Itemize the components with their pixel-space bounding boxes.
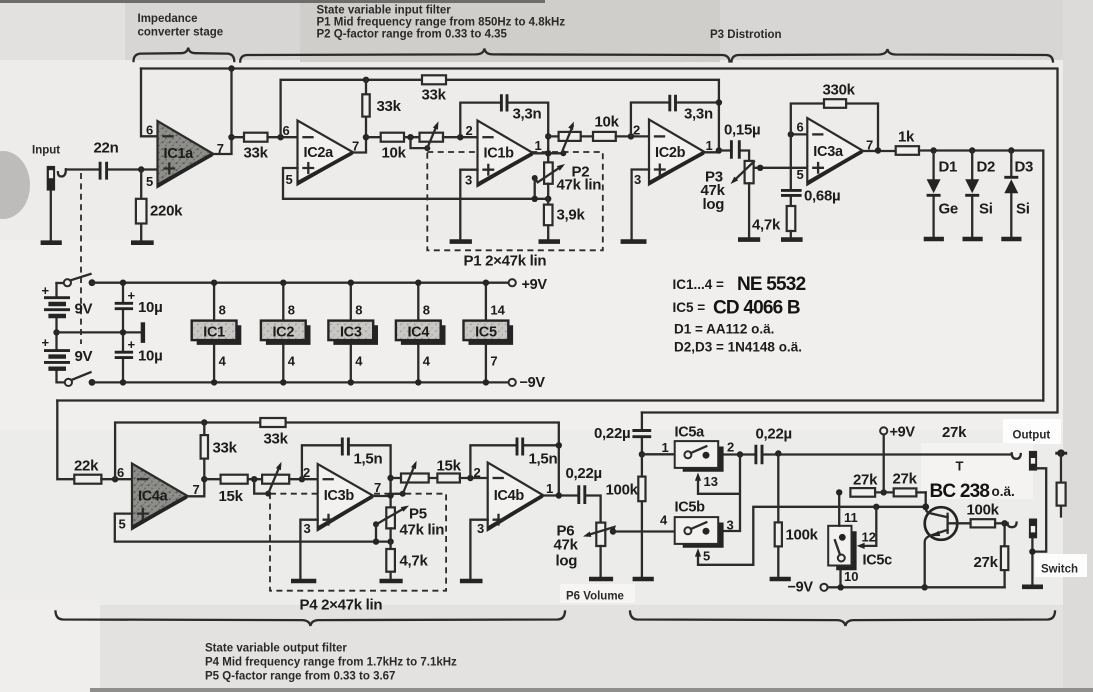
wire node to IC5a pin1	[642, 453, 675, 455]
op-amp U IC3a	[807, 118, 863, 185]
node IC1b output on riser	[545, 150, 551, 156]
wire IC5b pin5 control path to IC5c pin12 line	[698, 507, 926, 565]
wire IC4a feedback rail	[115, 423, 559, 496]
svg-text:IC5b: IC5b	[675, 500, 706, 516]
svg-text:P4 2×47k lin: P4 2×47k lin	[300, 597, 383, 614]
svg-text:0,68µ: 0,68µ	[804, 188, 840, 205]
node IC3b output	[387, 492, 393, 498]
svg-text:IC4a: IC4a	[138, 489, 169, 505]
wire input to 22n	[66, 168, 100, 170]
svg-text:220k: 220k	[150, 203, 183, 220]
resistor 33k feedback vertical IC4a	[203, 423, 205, 480]
svg-text:IC1...4 =: IC1...4 =	[673, 277, 725, 292]
svg-text:T: T	[956, 459, 964, 474]
svg-text:CD 4066 B: CD 4066 B	[713, 298, 800, 319]
scanner blob left edge	[0, 151, 30, 219]
resistor 33k input of IC2a	[232, 136, 298, 138]
svg-text:22k: 22k	[74, 458, 99, 475]
wiper tie P2 to rail	[532, 175, 538, 181]
svg-text:IC2b: IC2b	[655, 145, 686, 161]
svg-text:5: 5	[146, 174, 153, 189]
op-amp U IC4a shaded	[132, 464, 188, 530]
capacitor 0,22u bypass feed	[641, 413, 643, 455]
svg-text:4,7k: 4,7k	[400, 553, 429, 570]
svg-text:5: 5	[797, 167, 804, 182]
capacitor C 22n	[100, 162, 107, 180]
op-amp U IC2b	[649, 120, 705, 185]
wire IC2a pin5 to long ground-reference rail	[283, 168, 548, 199]
svg-text:NE 5532: NE 5532	[737, 274, 806, 295]
svg-text:5: 5	[119, 517, 126, 532]
wire IC3a output	[863, 150, 895, 152]
svg-text:15k: 15k	[219, 488, 244, 505]
svg-text:IC5: IC5	[475, 325, 497, 341]
ground 3,9k	[539, 239, 561, 244]
wire 0V mid rail	[57, 331, 143, 333]
switch jack	[1029, 519, 1037, 539]
svg-text:D2,D3 = 1N4148 o.ä.: D2,D3 = 1N4148 o.ä.	[674, 340, 802, 355]
svg-text:+9V: +9V	[890, 425, 916, 441]
resistor 33k horizontal on bottom fb rail	[260, 418, 285, 427]
terminal -9V bottom	[820, 584, 827, 591]
svg-text:IC1a: IC1a	[164, 146, 195, 162]
resistor 27k jack branch	[1057, 483, 1066, 506]
svg-text:1: 1	[662, 440, 669, 455]
wire +9V rail	[92, 282, 509, 284]
svg-text:47k: 47k	[554, 537, 579, 554]
svg-text:1: 1	[706, 138, 713, 153]
potentiometer P4a	[262, 475, 289, 484]
svg-text:0,22µ: 0,22µ	[566, 465, 602, 482]
op-amp U IC3b	[318, 464, 374, 530]
wire IC2a output riser	[354, 137, 367, 152]
wire 22n to IC1a pin5	[107, 168, 158, 170]
svg-text:Switch: Switch	[1041, 564, 1078, 576]
ground P3	[738, 237, 760, 242]
svg-text:IC4b: IC4b	[494, 488, 525, 504]
diode D1 Ge	[932, 151, 934, 237]
svg-text:15k: 15k	[437, 458, 462, 475]
node 3,3n loop at IC2b fb riser	[716, 99, 722, 105]
capacitor 10u lower	[122, 332, 124, 382]
wire output jack sleeve to switch node	[1032, 468, 1046, 551]
ground IC3b pin3	[291, 579, 316, 584]
switch battery bottom	[65, 379, 72, 386]
svg-text:100k: 100k	[786, 527, 819, 544]
svg-text:o.ä.: o.ä.	[992, 484, 1015, 499]
white label patch Output	[1003, 419, 1061, 444]
dashed box P4	[270, 494, 446, 591]
svg-text:+: +	[42, 335, 50, 350]
node control line at pin12 riser	[873, 504, 879, 510]
switch battery top	[57, 282, 64, 284]
node IC3b pin2	[299, 476, 305, 482]
svg-text:IC2: IC2	[272, 325, 294, 341]
resistor 27k collector right	[894, 488, 917, 496]
svg-text:6: 6	[797, 120, 804, 135]
svg-text:100k: 100k	[967, 502, 1000, 519]
op-amp U IC4b	[488, 463, 544, 531]
analog switch IC5a	[683, 447, 724, 472]
svg-text:4: 4	[219, 354, 227, 369]
node D3	[1008, 147, 1014, 153]
resistor 33k feedback horizontal on rail	[422, 75, 446, 84]
svg-text:3,3n: 3,3n	[513, 106, 542, 123]
IC block IC4	[417, 283, 419, 383]
svg-text:2: 2	[466, 123, 473, 138]
wire IC3b pin3 to ground	[300, 520, 317, 579]
node IC5c pin10 on -9V	[838, 584, 844, 590]
battery B2 9V	[57, 332, 65, 382]
brace P3 distortion	[732, 49, 1054, 62]
terminal +9V	[509, 279, 516, 286]
svg-text:IC3a: IC3a	[813, 144, 844, 160]
svg-text:330k: 330k	[823, 82, 856, 99]
svg-text:6: 6	[146, 123, 153, 138]
node IC1b pin2	[457, 134, 463, 140]
resistor 27k base pulldown	[1003, 523, 1005, 587]
white patch P6 Volume	[560, 584, 635, 603]
ground D3	[1001, 237, 1021, 242]
svg-text:3,9k: 3,9k	[557, 207, 586, 224]
svg-text:3: 3	[477, 521, 484, 536]
svg-text:1,5n: 1,5n	[354, 451, 383, 468]
ground 100k jack side	[770, 577, 791, 582]
svg-text:IC1: IC1	[203, 325, 225, 341]
svg-text:P5 Q-factor range from 0.33 to: P5 Q-factor range from 0.33 to 3.67	[205, 671, 395, 683]
ground input jack	[41, 240, 62, 245]
svg-text:5: 5	[703, 549, 710, 564]
wire latch IC5a out to pin13 and IC5b pin3	[698, 455, 740, 532]
ground IC4b pin3	[460, 579, 483, 584]
resistor 4,7k bottom	[389, 542, 391, 579]
resistor 3,9k	[547, 199, 549, 240]
resistor 33k feedback vertical IC2a	[365, 80, 367, 137]
wire IC3b output	[374, 495, 391, 497]
svg-text:+: +	[42, 283, 50, 298]
wire IC1a feedback left vertical to pin6	[141, 69, 158, 137]
brace bottom right section	[630, 612, 1055, 627]
resistor 15k after IC4a	[204, 478, 262, 480]
svg-text:47k lin: 47k lin	[557, 177, 602, 194]
node base network junction	[1001, 520, 1007, 526]
svg-text:D1 = AA112 o.ä.: D1 = AA112 o.ä.	[674, 322, 774, 337]
svg-text:5: 5	[286, 172, 293, 187]
output jack	[1029, 451, 1037, 471]
ground IC2b pin3	[621, 239, 647, 244]
potentiometer P5	[386, 507, 395, 528]
wire IC1a output riser	[214, 69, 232, 155]
potentiometer P2	[544, 162, 553, 183]
analog switch IC5b	[683, 523, 724, 548]
svg-text:8: 8	[219, 303, 226, 318]
svg-text:1: 1	[535, 138, 542, 153]
ground 4,7k bottom	[380, 579, 403, 584]
svg-text:+: +	[128, 337, 136, 352]
svg-text:2: 2	[303, 465, 310, 480]
node IC2a pin6	[277, 134, 283, 140]
svg-text:P1 2×47k lin: P1 2×47k lin	[464, 253, 547, 270]
svg-text:0,22µ: 0,22µ	[756, 426, 792, 443]
svg-text:BC 238: BC 238	[930, 481, 990, 502]
transistor T BC238	[925, 507, 958, 540]
wiper tie P4a	[254, 479, 268, 493]
IC block IC2	[282, 283, 284, 383]
white label patch Switch	[1035, 554, 1087, 577]
svg-text:27k: 27k	[853, 472, 878, 489]
node IC2a output	[363, 134, 369, 140]
svg-text:27k: 27k	[974, 554, 999, 571]
svg-text:4: 4	[423, 354, 431, 369]
svg-text:27k: 27k	[942, 424, 967, 441]
svg-text:Ge: Ge	[939, 201, 958, 218]
hook output jack contact	[1012, 453, 1021, 459]
node 0,22u to 100k drop	[775, 450, 781, 456]
node rail A at IC1a output riser	[228, 65, 234, 71]
node 0V battery junction	[53, 329, 59, 335]
svg-text:4: 4	[660, 513, 668, 528]
svg-text:8: 8	[423, 303, 430, 318]
node IC2b output	[716, 147, 722, 153]
svg-text:Si: Si	[1016, 201, 1030, 218]
svg-text:3: 3	[304, 521, 311, 536]
svg-text:State variable output filter: State variable output filter	[205, 643, 347, 655]
svg-text:9V: 9V	[75, 301, 93, 318]
wiper tie P1a	[411, 137, 428, 148]
svg-text:log: log	[556, 553, 578, 570]
resistor 27k collector left	[850, 488, 875, 497]
tip contact with resistor branch	[1057, 449, 1065, 457]
ground 100k IC5a input	[633, 577, 654, 582]
resistor 1k	[896, 146, 919, 155]
node IC4a pin6	[112, 476, 118, 482]
svg-text:13: 13	[704, 474, 718, 489]
input jack	[47, 166, 55, 191]
svg-text:Si: Si	[979, 201, 993, 218]
battery B1 9V	[55, 283, 57, 332]
svg-text:33k: 33k	[244, 145, 269, 162]
wire rail A top bypass from IC1a feedback to right side down to IC5a rail	[141, 69, 1058, 413]
svg-text:3: 3	[465, 173, 472, 188]
svg-text:8: 8	[288, 303, 295, 318]
resistor 22k	[74, 475, 101, 484]
ground 220k	[131, 240, 154, 245]
capacitor 0,22u after IC5a	[756, 445, 762, 464]
op-amp U IC1a shaded	[158, 121, 214, 187]
wire IC4a output riser	[188, 479, 204, 496]
wire -9V bottom line	[828, 586, 1005, 588]
wire IC1b pin3 to ground	[460, 170, 477, 240]
svg-text:State variable input filter: State variable input filter	[317, 5, 452, 17]
diode D3 Si reversed	[1010, 151, 1012, 237]
svg-text:IC4: IC4	[407, 325, 429, 341]
ground D2	[963, 237, 983, 242]
svg-text:3: 3	[727, 518, 734, 533]
svg-text:6: 6	[283, 123, 290, 138]
svg-text:−9V: −9V	[520, 375, 546, 391]
svg-text:10k: 10k	[382, 145, 407, 162]
wire to bypass signal line	[762, 453, 1012, 455]
svg-text:P4 Mid frequency range from 1.: P4 Mid frequency range from 1.7kHz to 7.…	[205, 657, 457, 669]
svg-text:D3: D3	[1015, 159, 1034, 176]
wire IC4b pin3 to ground	[470, 520, 487, 579]
terminal +9V bottom	[880, 427, 887, 434]
ground IC1b pin3	[450, 239, 472, 244]
wire IC2b output	[705, 151, 719, 153]
node riser at pot line	[387, 475, 393, 481]
terminal -9V	[509, 379, 516, 386]
node input bias junction	[138, 166, 144, 172]
node after 10k	[407, 134, 413, 140]
svg-text:10µ: 10µ	[138, 299, 162, 316]
svg-text:7: 7	[352, 139, 359, 154]
svg-text:11: 11	[844, 510, 858, 525]
wire diode clipper line and right drop to bottom filter	[919, 151, 1043, 401]
resistor 100k base	[971, 519, 996, 527]
svg-text:10k: 10k	[595, 114, 620, 131]
ground D1	[924, 237, 944, 242]
node P2 bottom on rail	[545, 196, 551, 202]
brace state variable output filter	[56, 612, 566, 627]
svg-text:10µ: 10µ	[138, 348, 162, 365]
svg-text:14: 14	[490, 303, 505, 318]
svg-text:1: 1	[546, 481, 553, 496]
svg-text:log: log	[703, 196, 725, 213]
svg-text:3,3n: 3,3n	[684, 106, 713, 123]
svg-text:IC3b: IC3b	[324, 488, 355, 504]
svg-text:4: 4	[355, 354, 363, 369]
wire IC4a pin5 to bottom reference rail	[115, 514, 391, 542]
node IC1a output	[228, 134, 234, 140]
svg-text:P6 Volume: P6 Volume	[566, 591, 624, 603]
wiper tie P1b	[560, 150, 566, 156]
brace impedance converter stage	[134, 48, 235, 61]
svg-text:6: 6	[117, 465, 124, 480]
analog switch IC5c	[836, 531, 856, 570]
wire long rail filtered signal to bottom filter input	[57, 399, 1043, 401]
svg-text:100k: 100k	[606, 482, 639, 499]
svg-text:33k: 33k	[213, 440, 238, 457]
dashed link input jack to battery switches	[80, 173, 82, 344]
svg-text:IC2a: IC2a	[304, 145, 335, 161]
node IC4b output	[556, 492, 562, 498]
resistor 4,7k below 0,68u	[787, 206, 796, 231]
svg-text:IC5c: IC5c	[863, 553, 893, 569]
svg-text:0,15µ: 0,15µ	[724, 122, 760, 139]
resistor 10k after IC2a	[366, 136, 420, 138]
resistor 15k between P4b and IC4b	[437, 474, 460, 483]
potentiometer P6 volume	[596, 523, 605, 546]
op-amp U IC2a	[298, 121, 354, 185]
node IC2b pin2	[628, 133, 634, 139]
svg-text:1k: 1k	[898, 129, 915, 146]
svg-text:converter stage: converter stage	[138, 27, 224, 39]
node P5 bottom on rail	[387, 538, 393, 544]
arrow pin13 control	[695, 473, 701, 481]
capacitor 0,15u	[719, 151, 749, 161]
node feedback rail at 33k vertical	[363, 77, 369, 83]
svg-text:IC5 =: IC5 =	[673, 300, 706, 315]
svg-text:P2 Q-factor range from 0.33 to: P2 Q-factor range from 0.33 to 4.35	[317, 29, 508, 41]
node IC5a output latch tap	[737, 451, 743, 457]
svg-text:10: 10	[844, 569, 858, 584]
capacitor 0,68u	[790, 134, 792, 206]
svg-text:0,22µ: 0,22µ	[594, 425, 630, 442]
svg-text:Input: Input	[32, 145, 60, 157]
capacitor 3,3n feedback IC2b	[631, 103, 719, 137]
node IC3a output	[875, 147, 881, 153]
wire left drop to 22k	[57, 401, 74, 480]
brace state variable input filter	[240, 49, 729, 62]
svg-text:33k: 33k	[377, 98, 402, 115]
arrow pin12 control	[857, 543, 865, 549]
svg-text:9V: 9V	[75, 348, 93, 365]
ground jack thick	[1022, 584, 1043, 589]
svg-text:1,5n: 1,5n	[529, 451, 558, 468]
svg-text:8: 8	[355, 303, 362, 318]
svg-text:4,7k: 4,7k	[752, 217, 781, 234]
input jack hook contact	[58, 169, 66, 176]
svg-text:−9V: −9V	[788, 580, 814, 596]
svg-text:IC3: IC3	[340, 325, 362, 341]
dashed box P1	[427, 152, 603, 250]
svg-text:P5: P5	[409, 506, 427, 523]
node 10u mid	[120, 329, 126, 335]
svg-text:33k: 33k	[422, 87, 447, 104]
op-amp U IC1b	[478, 121, 534, 187]
wire IC5c pin10 to -9V line	[839, 570, 841, 587]
node IC5a pin1	[639, 451, 645, 457]
potentiometer P3	[745, 161, 754, 183]
svg-text:3: 3	[634, 172, 641, 187]
resistor 100k pulldown before jack	[777, 454, 779, 577]
IC block IC5	[485, 283, 487, 383]
node bottom fb rail at 33k vertical	[201, 419, 207, 425]
wire IC2a feedback rail to IC2b output	[281, 80, 719, 150]
wire IC3a pin6 node	[791, 133, 808, 135]
svg-text:7: 7	[193, 482, 200, 497]
svg-text:2: 2	[474, 465, 481, 480]
svg-text:D1: D1	[939, 159, 958, 176]
node 10u bottom	[120, 379, 126, 385]
arrow pin5 control	[695, 548, 701, 556]
svg-text:2: 2	[633, 123, 640, 138]
IC block IC3	[350, 283, 352, 383]
svg-text:IC1b: IC1b	[484, 146, 515, 162]
diode D2 Si	[971, 151, 973, 237]
svg-text:2: 2	[727, 440, 734, 455]
node jack common	[1029, 548, 1035, 554]
resistor 220k	[140, 170, 142, 241]
svg-text:+9V: +9V	[522, 277, 548, 293]
svg-text:22n: 22n	[94, 140, 119, 157]
capacitor 10u upper	[122, 283, 124, 333]
node IC4b pin2	[467, 475, 473, 481]
wire P6 wiper to IC5b pin4	[613, 530, 675, 532]
potentiometer P1b	[548, 135, 593, 137]
wire IC1b output	[534, 152, 564, 154]
svg-text:7: 7	[374, 480, 381, 495]
capacitor 0,22u output coupling	[579, 485, 585, 504]
svg-text:D2: D2	[977, 159, 996, 176]
ground P6	[589, 577, 613, 582]
wire -9V rail	[92, 381, 509, 383]
svg-text:P1 Mid frequency range from 85: P1 Mid frequency range from 850Hz to 4.8…	[317, 17, 566, 29]
ground 4,7k	[781, 237, 803, 242]
node emitter on -9V line	[922, 584, 928, 590]
svg-text:7: 7	[490, 354, 497, 369]
svg-text:IC5a: IC5a	[675, 425, 706, 441]
